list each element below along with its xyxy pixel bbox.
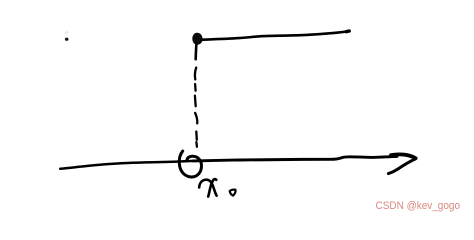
filled endpoint dot xyxy=(193,34,202,44)
dash 4 xyxy=(195,113,197,124)
faint smudge xyxy=(65,31,69,35)
arrowhead upper barb xyxy=(391,154,416,158)
label x xyxy=(199,180,216,196)
label x subscript o xyxy=(230,190,236,196)
open circle at x0 xyxy=(179,151,201,177)
arrowhead lower barb xyxy=(388,159,415,174)
x axis right segment with bump xyxy=(193,156,397,161)
svg-text:CSDN @kev_gogo: CSDN @kev_gogo xyxy=(376,200,461,212)
dash 5 xyxy=(195,132,198,140)
stray dot xyxy=(65,38,69,41)
dash 6 xyxy=(195,142,198,147)
dash 2 xyxy=(194,84,197,91)
upper line (right branch) xyxy=(202,31,350,40)
pen stop knot at line end xyxy=(346,29,349,33)
dashed vertical: dash 1 xyxy=(195,68,196,80)
tail below dot xyxy=(194,44,197,60)
x axis left segment xyxy=(60,161,193,169)
dash 3 xyxy=(194,96,197,107)
